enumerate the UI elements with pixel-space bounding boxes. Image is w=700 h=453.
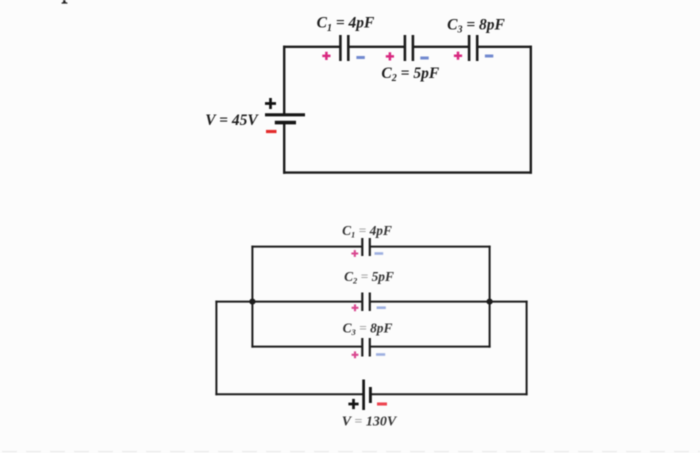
polarity + of C2 (bottom) <box>352 304 359 311</box>
wire: right side vertical <box>530 46 532 174</box>
svg-text:C3 = 8pF: C3 = 8pF <box>343 320 393 337</box>
junction node left <box>249 299 255 305</box>
wire: outer left vertical <box>215 301 217 396</box>
polarity - of C3 (top) <box>485 55 493 58</box>
capacitor C2 (bottom circuit) plates <box>362 293 370 312</box>
capacitor C1 (top circuit) plates <box>340 35 348 61</box>
battery V2 polarity + <box>348 399 358 409</box>
battery V2 short (-) plate <box>369 387 372 403</box>
polarity - of C1 (bottom) <box>375 252 384 255</box>
wire: C1 branch right segment <box>369 246 491 248</box>
wire: C2 middle branch right segment <box>369 301 528 303</box>
battery V2 polarity - (red) <box>377 402 387 405</box>
wire: C2 middle branch left segment <box>215 301 363 303</box>
battery V1 short (-) plate <box>275 121 296 125</box>
battery V2 long (+) plate <box>362 380 365 411</box>
battery V1 polarity + <box>265 98 276 109</box>
wire: inner left vertical <box>251 246 253 348</box>
wire: left side vertical lower (from battery - plate) <box>283 123 285 174</box>
svg-text:C2 = 5pF: C2 = 5pF <box>344 269 394 286</box>
svg-text:V = 130V: V = 130V <box>342 415 398 430</box>
faint dashed line at bottom edge <box>2 451 700 453</box>
svg-text:C2 = 5pF: C2 = 5pF <box>381 65 439 84</box>
wire: outer right vertical <box>526 301 528 396</box>
polarity + of C1 (bottom) <box>351 250 358 257</box>
wire: top side segment between C2 and C3 <box>412 46 470 48</box>
polarity + of C3 (top) <box>454 52 462 60</box>
wire: top side segment between C1 and C2 <box>348 46 406 48</box>
capacitor C1 (bottom circuit) plates <box>362 238 370 256</box>
wire: C1 branch left segment <box>251 246 363 248</box>
wire: top side segment from left corner to C1 <box>283 46 341 48</box>
svg-text:V = 45V: V = 45V <box>205 112 259 129</box>
stray cropped glyph at top edge <box>62 0 68 4</box>
capacitor C2 (top circuit) plates <box>405 35 413 61</box>
wire: C3 branch left segment <box>251 346 363 348</box>
svg-text:C1 = 4pF: C1 = 4pF <box>342 223 392 240</box>
wire: battery branch left segment <box>215 393 364 395</box>
polarity + of C3 (bottom) <box>352 351 359 358</box>
svg-text:C3 = 8pF: C3 = 8pF <box>447 17 505 36</box>
wire: inner right vertical <box>489 246 491 348</box>
wire: left side vertical upper (to battery + plate) <box>283 46 285 115</box>
wire: top side segment from C3 to right corner <box>476 46 532 48</box>
wire: bottom side <box>283 171 532 173</box>
junction node right <box>487 299 493 305</box>
wire: C3 branch right segment <box>369 346 491 348</box>
battery V1 polarity - (red) <box>266 130 277 133</box>
polarity - of C3 (bottom) <box>376 353 385 356</box>
capacitor C3 (top circuit) plates <box>469 35 477 61</box>
polarity - of C2 (bottom) <box>377 306 386 309</box>
battery V1 long (+) plate <box>265 113 305 116</box>
capacitor C3 (bottom circuit) plates <box>362 338 370 357</box>
polarity + of C2 (top) <box>386 52 394 60</box>
wire: battery branch right segment <box>370 393 528 395</box>
polarity + of C1 (top) <box>322 52 330 60</box>
polarity - of C1 (top) <box>356 56 364 59</box>
svg-text:C1 = 4pF: C1 = 4pF <box>317 15 375 34</box>
polarity - of C2 (top) <box>420 57 428 60</box>
